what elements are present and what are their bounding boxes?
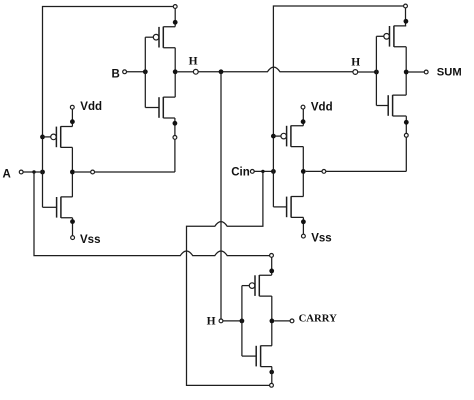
wire H row to SUM gate	[358, 71, 377, 73]
svg-text:Cin: Cin	[231, 166, 250, 178]
wire from top-right circle down to Q7 source	[405, 8, 407, 26]
node Q2 source dot	[173, 121, 178, 126]
port A open circle	[19, 170, 23, 174]
power Vdd left: stub, dot, circle, label	[71, 109, 73, 126]
wire SUM output row	[409, 71, 425, 73]
node Q7 source dot	[404, 19, 409, 24]
wire B-inverter output vertical	[174, 48, 176, 97]
transistor Q1 PMOS of B-inverter	[145, 27, 175, 48]
transistor Q2 NMOS of B-inverter	[145, 97, 175, 118]
power Vss left: stub, dot, circle, label	[72, 218, 74, 236]
wire Q10 drain to bottom dot	[271, 367, 273, 384]
node Q1 source dot	[173, 20, 178, 25]
terminal open circle top-right rail	[404, 4, 408, 8]
wire H to carry gate junction	[223, 320, 242, 322]
terminal open circle H right	[353, 70, 358, 75]
node A-row branch junction	[32, 170, 35, 173]
terminal open circle on output row	[91, 170, 95, 174]
node Q10 source dot	[269, 370, 274, 375]
terminal open circle on Cin rail at bottom	[270, 383, 274, 387]
port SUM open circle	[424, 70, 428, 74]
wire CARRY output row	[274, 320, 290, 322]
transistor Q7 PMOS of SUM-inverter	[376, 26, 406, 47]
svg-text:CARRY: CARRY	[299, 313, 337, 325]
terminal open circle on A rail feeding carry PMOS	[270, 254, 274, 258]
transistor Q4 NMOS of A-inverter	[43, 197, 73, 218]
wire B input	[127, 71, 146, 73]
terminal open circle top-left rail	[173, 5, 177, 9]
port B open circle and label	[123, 70, 127, 74]
wire B gate vertical	[144, 37, 146, 107]
power Vss right: stub, dot, circle, label	[302, 217, 304, 234]
transistor Q6 NMOS of Cin-inverter	[273, 196, 303, 217]
terminal open circle H left	[193, 69, 198, 74]
svg-text:H: H	[351, 56, 360, 68]
power Vdd right: stub, dot, circle, label	[302, 109, 304, 126]
node Cin branch junction	[261, 170, 264, 173]
svg-text:H: H	[207, 316, 216, 328]
wire carry gate vertical	[241, 286, 243, 357]
svg-text:Vss: Vss	[80, 234, 100, 246]
wire Cin-inverter output vertical	[302, 147, 304, 197]
svg-text:SUM: SUM	[437, 67, 462, 79]
node carry gate junction	[240, 319, 245, 324]
transistor Q9 PMOS of carry mux	[242, 275, 272, 296]
transistor Q10 NMOS of carry mux	[242, 346, 272, 367]
wire net Cin: gate vertical full + top rail to SUM PMOS source	[273, 6, 403, 207]
wire from top circle down to Q1 source	[174, 8, 176, 26]
node A gate dot on PMOS gate lead	[40, 135, 45, 140]
svg-text:Vss: Vss	[311, 232, 331, 244]
port CARRY open circle	[290, 319, 294, 323]
node B gate junction	[143, 69, 148, 74]
node Q8 source dot	[404, 120, 409, 125]
node Cin-inverter output	[301, 169, 306, 174]
terminal open circle on Cin output row	[322, 170, 326, 174]
wire A-inverter output vertical	[71, 147, 73, 197]
transistor Q3 PMOS of A-inverter	[43, 126, 73, 147]
wire carry mux output vertical (PMOS drain to NMOS drain)	[271, 296, 273, 346]
terminal open circle below SUM NMOS	[404, 133, 408, 137]
svg-text:H: H	[189, 56, 198, 68]
node B-inverter output (H)	[173, 69, 178, 74]
wire H branch vertical down to carry gates	[220, 72, 222, 319]
wire circle to Q8 source dot	[405, 116, 407, 133]
node A-inverter output	[70, 170, 75, 175]
wire SUM gate vertical	[375, 36, 377, 105]
wire H row left segment	[178, 71, 194, 73]
wire SUM-inverter output vertical	[405, 47, 407, 95]
svg-text:Vdd: Vdd	[311, 101, 333, 113]
port Cin open circle and label	[250, 170, 254, 174]
svg-text:A: A	[3, 168, 11, 180]
wire net Cin lower branch: down, left with hop, down, right to carry NMOS	[187, 171, 270, 385]
node Cin gate junction	[271, 169, 276, 174]
wire net A lower branch: down and across bottom with hops	[34, 172, 270, 256]
wire net A: gate vertical + top rail to B-inverter PMOS source	[43, 7, 174, 208]
node A-row gate junction	[40, 170, 45, 175]
wire H row with hop over Cin vertical	[198, 67, 353, 72]
wire A-inverter output row to B-inverter NMOS source	[75, 139, 175, 172]
node SUM gate junction	[374, 70, 379, 75]
node carry output junction	[270, 319, 275, 324]
node Cin PMOS gate dot	[271, 134, 276, 139]
node SUM-inverter output	[404, 70, 409, 75]
svg-text:B: B	[112, 68, 120, 80]
wire circle to Q2 source dot	[174, 118, 176, 136]
terminal open circle below B-inverter NMOS	[173, 136, 177, 140]
wire net A: input row	[23, 171, 40, 173]
node H row carry branch	[219, 69, 224, 74]
wire circle to Q9 source	[271, 257, 273, 275]
terminal open circle H bottom	[219, 319, 223, 323]
transistor Q5 PMOS of Cin-inverter	[273, 126, 303, 147]
transistor Q8 NMOS of SUM-inverter	[376, 95, 406, 116]
svg-text:Vdd: Vdd	[80, 101, 102, 113]
wire Cin input row	[254, 170, 273, 172]
node Q9 source dot	[269, 269, 274, 274]
wire Cin-inverter output row to SUM NMOS source	[306, 137, 407, 171]
